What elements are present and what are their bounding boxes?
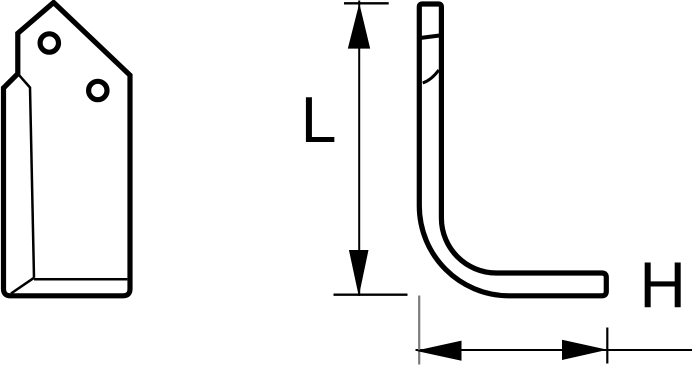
bottom bevel line	[34, 278, 127, 281]
bevel diagonal	[11, 278, 34, 294]
dimension H right arrowhead	[562, 340, 608, 360]
side view bevel curve	[423, 70, 439, 83]
svg-text:L: L	[301, 84, 337, 156]
dimension L bottom arrowhead	[349, 250, 369, 296]
blade front view outline	[4, 3, 131, 296]
dimension H left extension line (gray)	[418, 296, 420, 365]
dimension H right extension tick	[606, 328, 608, 364]
svg-text:H: H	[639, 249, 686, 321]
dimension L top arrowhead	[348, 3, 370, 48]
dimension L bottom extension tick	[334, 294, 408, 296]
hole 2	[89, 81, 107, 99]
side view weld line	[421, 36, 440, 38]
dimension H left arrowhead	[416, 341, 462, 361]
blade side view outline	[419, 4, 606, 296]
fold line	[18, 74, 34, 278]
hole 1	[40, 34, 58, 52]
dimension H line	[416, 349, 693, 351]
dimension L line	[358, 1, 360, 297]
dimension L top extension tick	[344, 2, 389, 4]
